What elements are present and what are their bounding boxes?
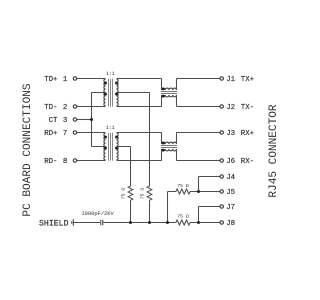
svg-text:PC BOARD CONNECTIONS: PC BOARD CONNECTIONS — [22, 83, 34, 216]
svg-text:8: 8 — [63, 158, 67, 166]
svg-text:2: 2 — [63, 104, 67, 112]
svg-text:75 Ω: 75 Ω — [177, 183, 189, 189]
svg-text:CT: CT — [49, 117, 58, 125]
svg-text:75 Ω: 75 Ω — [177, 214, 189, 220]
svg-text:TD+: TD+ — [44, 76, 58, 84]
svg-text:J1: J1 — [226, 76, 235, 84]
svg-text:RD-: RD- — [44, 158, 57, 166]
svg-text:RX-: RX- — [241, 158, 254, 166]
svg-text:J7: J7 — [226, 204, 235, 212]
svg-text:1000pF/2KV: 1000pF/2KV — [81, 211, 114, 217]
svg-text:TX+: TX+ — [241, 76, 255, 84]
svg-text:1: 1 — [63, 76, 68, 84]
svg-text:J3: J3 — [226, 130, 235, 138]
svg-text:J6: J6 — [226, 158, 235, 166]
svg-text:RX+: RX+ — [241, 130, 255, 138]
svg-text:RJ45 CONNECTOR: RJ45 CONNECTOR — [268, 104, 280, 198]
svg-text:1:1: 1:1 — [106, 125, 115, 131]
svg-text:1:1: 1:1 — [106, 71, 115, 77]
svg-text:3: 3 — [63, 117, 67, 125]
svg-text:J5: J5 — [226, 189, 235, 197]
svg-text:J2: J2 — [226, 104, 235, 112]
svg-text:RD+: RD+ — [44, 130, 58, 138]
svg-text:J8: J8 — [226, 220, 235, 228]
svg-text:SHIELD: SHIELD — [39, 220, 69, 229]
svg-text:75 Ω: 75 Ω — [121, 188, 127, 200]
svg-text:TX-: TX- — [241, 104, 254, 112]
svg-text:TD-: TD- — [44, 104, 57, 112]
svg-text:J4: J4 — [226, 174, 235, 182]
svg-text:75 Ω: 75 Ω — [140, 188, 146, 200]
svg-text:7: 7 — [63, 130, 67, 138]
